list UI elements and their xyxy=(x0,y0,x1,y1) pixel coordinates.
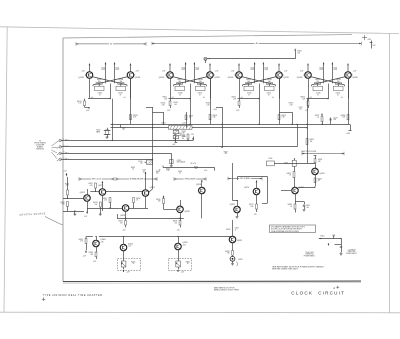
transistor Q4313 xyxy=(120,237,133,259)
stage 3 right collector wire xyxy=(278,78,286,124)
inter-stage component x=186 xyxy=(185,112,193,128)
bus line 3 input wire xyxy=(57,152,196,167)
svg-text:+0.4V: +0.4V xyxy=(101,69,105,71)
coupling capacitor C4161 on bus 4 drop xyxy=(138,160,152,165)
svg-text:2.2K: 2.2K xyxy=(104,200,107,202)
svg-text:R4130: R4130 xyxy=(315,79,320,81)
svg-text:+12V FROM: +12V FROM xyxy=(348,250,357,252)
svg-text:R4147: R4147 xyxy=(189,115,193,117)
svg-text:360: 360 xyxy=(98,81,101,83)
svg-text:360: 360 xyxy=(199,81,202,83)
mid dimension REG CLOCK xyxy=(79,177,114,181)
type title bottom left xyxy=(43,294,103,297)
transistor Q4213 xyxy=(98,181,106,211)
flip-flop stage 1 transistor Q4138 xyxy=(127,71,140,79)
svg-text:R4331: R4331 xyxy=(226,229,230,231)
svg-text:2.2K: 2.2K xyxy=(213,117,216,119)
svg-text:Q4168: Q4168 xyxy=(228,77,233,79)
svg-text:R4151: R4151 xyxy=(182,131,186,133)
test point TP4150 with supply feed wire xyxy=(204,49,302,63)
Q4303 emitter components xyxy=(89,252,97,263)
flip-flop stage 4 transistor Q4188 xyxy=(297,71,311,79)
mid dimension NORMAL BACKER xyxy=(116,177,157,181)
svg-text:560: 560 xyxy=(195,168,198,170)
svg-text:2.2K: 2.2K xyxy=(206,104,209,106)
svg-text:R4229: R4229 xyxy=(166,168,170,170)
svg-text:CLOCK CIRCUIT: CLOCK CIRCUIT xyxy=(291,290,345,295)
stage 3 speed-up capacitor left xyxy=(244,84,254,96)
svg-text:47: 47 xyxy=(268,94,270,96)
transistor Q4293 output xyxy=(312,156,325,187)
transistor Q4333 xyxy=(226,220,242,251)
stage 4 supply arrow left xyxy=(307,64,309,72)
svg-text:Q4293: Q4293 xyxy=(319,173,324,175)
svg-text:-12V: -12V xyxy=(191,134,194,136)
svg-text:R4130: R4130 xyxy=(246,79,251,81)
svg-text:R4233: R4233 xyxy=(118,221,122,223)
stage 4 supply arrow right xyxy=(347,64,349,72)
svg-text:Q4273: Q4273 xyxy=(244,187,249,189)
wire Q4293 emitter to Q4283 collector xyxy=(298,178,322,188)
svg-text:1.8K: 1.8K xyxy=(182,133,185,135)
svg-text:R4133: R4133 xyxy=(133,115,138,117)
wire Q4213 to Q4223 base rail xyxy=(106,191,143,193)
svg-text:3.3K: 3.3K xyxy=(182,136,185,138)
stage 3 speed-up capacitor right xyxy=(265,84,275,96)
svg-text:1K: 1K xyxy=(317,117,319,119)
dimension line 4X (top left span) xyxy=(76,42,146,46)
svg-text:R4333: R4333 xyxy=(225,251,229,253)
svg-text:+125V: +125V xyxy=(367,39,371,41)
svg-text:Q4158: Q4158 xyxy=(214,77,219,79)
svg-text:10K: 10K xyxy=(297,52,300,54)
flip-flop stage 4 transistor Q4198 xyxy=(345,71,358,79)
svg-text:C4130: C4130 xyxy=(247,93,252,95)
svg-text:R4241: R4241 xyxy=(156,199,160,201)
stage 3 center trunk wire x=222 xyxy=(216,107,223,148)
potentiometer box R4315 (dashed) xyxy=(118,259,141,274)
svg-text:VIA P4100: VIA P4100 xyxy=(36,148,44,151)
svg-text:1K: 1K xyxy=(189,117,191,119)
svg-text:R4291: R4291 xyxy=(318,159,322,161)
svg-text:R4167: R4167 xyxy=(297,51,302,53)
svg-text:Q4148: Q4148 xyxy=(159,77,164,79)
title CLOCK CIRCUIT xyxy=(291,290,345,295)
svg-text:Q4233: Q4233 xyxy=(120,215,125,217)
svg-text:R4130: R4130 xyxy=(177,79,182,81)
trunk line B y=127.8 with delay line xyxy=(111,122,308,129)
svg-text:+0.6V: +0.6V xyxy=(346,133,350,135)
svg-text:+0.4V: +0.4V xyxy=(213,109,217,111)
svg-text:R4173: R4173 xyxy=(282,115,287,117)
delay line termination stack xyxy=(172,129,186,146)
flip-flop stage 3 transistor Q4168 xyxy=(228,71,242,79)
stage 2 supply arrow left xyxy=(169,64,171,72)
svg-text:C4283: C4283 xyxy=(306,205,310,207)
stage 2 emitter rail wires xyxy=(169,78,211,99)
svg-text:100: 100 xyxy=(299,109,302,111)
feedback loop wire around Q4273 xyxy=(238,177,268,204)
stage 2 base resistor left xyxy=(177,79,183,84)
svg-text:C4175: C4175 xyxy=(298,107,302,109)
svg-text:360: 360 xyxy=(247,81,250,83)
svg-text:180: 180 xyxy=(140,163,143,165)
svg-text:4.7K: 4.7K xyxy=(90,185,93,187)
bus line 2 input wire xyxy=(57,124,298,149)
stage 3 cross-coupling wires xyxy=(242,77,277,87)
svg-text:R4325: R4325 xyxy=(186,261,190,263)
svg-text:C4219: C4219 xyxy=(142,170,146,172)
stage 4 emitter resistor xyxy=(301,97,310,112)
text cluster above FREQ SCALER dimension xyxy=(131,166,207,174)
bus line 1 termination cluster with -12V xyxy=(181,134,194,141)
svg-text:LINE CORD: LINE CORD xyxy=(348,251,356,253)
svg-text:R4136: R4136 xyxy=(336,79,341,81)
svg-text:Q4198: Q4198 xyxy=(352,77,357,79)
right-side RC cluster on trunk A xyxy=(315,114,338,126)
svg-text:R4211: R4211 xyxy=(89,183,93,185)
pin numbers for bus inputs xyxy=(64,139,65,160)
svg-text:5K: 5K xyxy=(187,263,189,265)
stage 1 emitter resistor R4121 with -12V return xyxy=(77,99,90,112)
labels near scaler trunk x=222 xyxy=(224,151,228,155)
svg-text:R4145: R4145 xyxy=(161,103,166,105)
svg-text:470: 470 xyxy=(175,222,178,224)
stage 4 speed-up capacitor right xyxy=(334,84,344,96)
svg-text:R4239: R4239 xyxy=(194,166,198,168)
svg-text:2.7K: 2.7K xyxy=(80,241,83,243)
svg-text:C4161: C4161 xyxy=(138,161,142,163)
transistor Q4223 xyxy=(142,172,154,208)
potentiometer box R4325 (dashed) xyxy=(169,259,192,274)
svg-text:-12V: -12V xyxy=(254,214,257,216)
svg-text:Q4203: Q4203 xyxy=(80,192,85,194)
svg-text:-12V: -12V xyxy=(181,272,184,274)
indicator/neon B4335 xyxy=(230,256,242,266)
svg-text:+0.4V: +0.4V xyxy=(115,69,119,71)
svg-text:T04.8: T04.8 xyxy=(181,67,185,69)
svg-text:C4229: C4229 xyxy=(178,171,182,173)
stage 4 cross-coupling wires xyxy=(311,77,346,87)
Q4203 emitter ground arrow xyxy=(84,212,88,218)
svg-text:R4281: R4281 xyxy=(287,173,291,175)
svg-text:+3.4V: +3.4V xyxy=(162,71,166,73)
svg-text:-12V: -12V xyxy=(126,272,129,274)
svg-text:360: 360 xyxy=(337,81,340,83)
inter-stage labels near stage 2 right xyxy=(206,103,217,111)
svg-text:1K: 1K xyxy=(289,175,291,177)
svg-text:+3.4V: +3.4V xyxy=(81,71,85,73)
svg-text:1K: 1K xyxy=(132,169,134,171)
svg-text:C4145: C4145 xyxy=(173,102,178,104)
svg-text:-0.3V: -0.3V xyxy=(100,241,103,243)
scaler feed wire y=167.2 xyxy=(159,166,215,172)
stage 1 center trunk wire down to bus area xyxy=(112,99,113,142)
svg-text:2.2K: 2.2K xyxy=(289,104,292,106)
svg-text:82: 82 xyxy=(179,173,181,175)
svg-text:R4161: R4161 xyxy=(232,97,237,99)
resistor drop below Q4233 xyxy=(118,218,126,231)
svg-text:SEMICONDUCTOR TYPES: SEMICONDUCTOR TYPES xyxy=(214,290,240,292)
bus 1 termination capacitor cluster near x=175 xyxy=(174,133,182,141)
svg-text:REG CLOCK: REG CLOCK xyxy=(92,179,101,181)
svg-text:+3.4V: +3.4V xyxy=(284,71,288,73)
svg-text:100: 100 xyxy=(174,104,177,106)
registration mark top-right xyxy=(362,35,367,40)
svg-text:C4335: C4335 xyxy=(238,259,243,261)
svg-text:T04.8: T04.8 xyxy=(250,67,254,69)
svg-text:+3.4V: +3.4V xyxy=(353,71,357,73)
vertical trunk x=232.5 from bus area to Q4263 xyxy=(233,163,238,201)
stage 2 speed-up capacitor right xyxy=(196,84,206,96)
clock output components right of trunk xyxy=(267,158,316,166)
transistor Q4273 xyxy=(244,180,260,204)
svg-text:Q4303: Q4303 xyxy=(100,239,105,241)
svg-text:T04.8: T04.8 xyxy=(101,67,105,69)
svg-text:10: 10 xyxy=(235,229,237,231)
svg-text:C4136: C4136 xyxy=(118,93,123,95)
svg-text:1.5K: 1.5K xyxy=(233,98,236,100)
svg-text:47: 47 xyxy=(337,94,339,96)
svg-text:R4202: R4202 xyxy=(60,202,64,204)
svg-text:R4273: R4273 xyxy=(249,204,253,206)
svg-text:Y4100: Y4100 xyxy=(96,130,101,132)
svg-text:470: 470 xyxy=(120,222,123,224)
svg-text:C4147: C4147 xyxy=(178,133,182,135)
svg-text:R4175: R4175 xyxy=(289,103,294,105)
svg-text:(SEE NOTE): (SEE NOTE) xyxy=(306,254,314,256)
transistor Q4253 xyxy=(196,180,205,218)
transistor Q4203 xyxy=(80,189,91,214)
left column lower components xyxy=(60,202,84,216)
power distribution network bottom right xyxy=(304,235,357,258)
stage 4 center trunk wire x=307 down to pulse shaper xyxy=(306,99,314,163)
svg-text:+0.5V: +0.5V xyxy=(204,170,208,172)
svg-text:C4331: C4331 xyxy=(235,228,239,230)
stage 4 speed-up capacitor left xyxy=(313,84,323,96)
svg-text:Q4138: Q4138 xyxy=(135,77,140,79)
svg-text:R4301: R4301 xyxy=(79,239,83,241)
svg-text:+0.1: +0.1 xyxy=(123,97,126,99)
svg-text:+0.4V: +0.4V xyxy=(250,69,254,71)
stage 1 collector load resistor right xyxy=(114,62,120,83)
transistor Q4323 xyxy=(175,237,188,259)
svg-text:1K: 1K xyxy=(290,206,292,208)
svg-text:1K: 1K xyxy=(136,200,138,202)
stage 2 cross-coupling wires xyxy=(173,77,208,87)
stage 2 base resistor right xyxy=(197,79,203,84)
svg-text:Q4253: Q4253 xyxy=(196,184,201,186)
stage 1 base resistor right xyxy=(118,79,124,84)
svg-text:+0.2V: +0.2V xyxy=(182,244,186,246)
svg-text:R4255: R4255 xyxy=(224,151,228,153)
svg-text:R4136: R4136 xyxy=(198,79,203,81)
bus line 4 input wire xyxy=(57,158,153,161)
stage 1 cross-coupling wires xyxy=(92,77,128,87)
svg-text:NN +2.5V: NN +2.5V xyxy=(191,163,197,165)
svg-text:-12V: -12V xyxy=(93,261,96,263)
svg-text:1.5K: 1.5K xyxy=(302,98,305,100)
lower rail y=218.3 xyxy=(117,214,184,219)
svg-text:Q4313: Q4313 xyxy=(128,243,133,245)
svg-text:360: 360 xyxy=(316,81,319,83)
svg-text:R4219: R4219 xyxy=(131,167,135,169)
stage 2 right collector wire xyxy=(209,78,217,124)
svg-text:+4.2V: +4.2V xyxy=(182,122,186,124)
svg-text:-12V: -12V xyxy=(177,230,180,232)
flip-flop stage 2 transistor Q4158 xyxy=(207,71,220,79)
svg-text:360: 360 xyxy=(268,81,271,83)
stage 3 trunk x=259 xyxy=(258,99,259,125)
svg-text:680: 680 xyxy=(318,161,321,163)
svg-text:47: 47 xyxy=(248,94,250,96)
Q4333 emitter resistor xyxy=(225,251,233,257)
svg-text:10K: 10K xyxy=(310,141,313,143)
emitter rail y=208 and components xyxy=(87,198,141,209)
svg-text:10K: 10K xyxy=(156,173,159,175)
svg-text:.001: .001 xyxy=(178,135,181,137)
stage 4 right collector wire, trunk end xyxy=(341,78,349,124)
stage 1 right collector resistor R4133 xyxy=(130,78,138,124)
svg-text:R4193: R4193 xyxy=(341,115,346,117)
svg-text:+3.4V: +3.4V xyxy=(300,71,304,73)
svg-text:Q4223: Q4223 xyxy=(150,187,155,189)
svg-text:R4121: R4121 xyxy=(77,101,82,103)
svg-text:4.7K: 4.7K xyxy=(167,170,170,172)
svg-text:R4303: R4303 xyxy=(89,252,93,254)
svg-text:R4315: R4315 xyxy=(131,261,135,263)
stage 1 collector load resistor left xyxy=(101,62,106,83)
svg-text:T4290: T4290 xyxy=(268,158,272,160)
boxed circuit note xyxy=(270,225,316,233)
svg-text:DEC: DEC xyxy=(373,45,376,47)
svg-text:R4153: R4153 xyxy=(213,115,218,117)
svg-text:47: 47 xyxy=(99,94,101,96)
svg-text:POWER SHEET 2: POWER SHEET 2 xyxy=(304,255,316,257)
stage 1 supply arrow right xyxy=(130,64,132,72)
right dimension FAST CLOCK PULSE xyxy=(302,150,345,155)
svg-text:Q4178: Q4178 xyxy=(283,77,288,79)
svg-text:+0.2V: +0.2V xyxy=(128,246,132,248)
stage 1 speed-up capacitor left xyxy=(95,84,105,96)
svg-text:68: 68 xyxy=(123,129,125,131)
stage 2 left trunk wire x=152.5 xyxy=(146,107,153,160)
left resistor chain to -12V at x=86 xyxy=(79,237,93,258)
inter-stage divider network R4145 xyxy=(153,102,178,125)
svg-text:Q4243: Q4243 xyxy=(184,211,189,213)
svg-text:+0.4V: +0.4V xyxy=(319,69,323,71)
svg-text:R4136: R4136 xyxy=(119,79,124,81)
resistor drop below Q4243 xyxy=(173,218,181,231)
transistor Q4233 xyxy=(118,205,148,219)
transistor Q4303 xyxy=(93,236,106,252)
svg-text:BEFORE USING THIS UNIT: BEFORE USING THIS UNIT xyxy=(272,269,298,271)
stage 1 speed-up capacitor right xyxy=(116,84,126,96)
svg-text:-12V: -12V xyxy=(83,255,86,257)
svg-text:R4141: R4141 xyxy=(163,97,168,99)
svg-text:T04.8: T04.8 xyxy=(264,67,268,69)
svg-text:R4221: R4221 xyxy=(156,171,160,173)
svg-text:C4136: C4136 xyxy=(336,93,341,95)
resistor stack between Q4203 and Q4213 xyxy=(89,183,100,192)
svg-text:TP: TP xyxy=(208,59,210,61)
svg-text:+3.4V: +3.4V xyxy=(135,71,139,73)
stage 3 emitter rail wires xyxy=(238,78,280,99)
svg-text:360: 360 xyxy=(120,81,123,83)
svg-text:C4162: C4162 xyxy=(177,160,181,162)
stage row group xyxy=(78,62,357,99)
svg-text:+3.4V: +3.4V xyxy=(215,71,219,73)
svg-text:47: 47 xyxy=(317,94,319,96)
svg-text:2.2K: 2.2K xyxy=(161,104,164,106)
svg-text:470: 470 xyxy=(318,180,321,182)
svg-text:1.5K: 1.5K xyxy=(164,98,167,100)
svg-text:C4130: C4130 xyxy=(316,93,321,95)
svg-text:R4136: R4136 xyxy=(267,79,272,81)
svg-text:8.2K: 8.2K xyxy=(62,204,65,206)
svg-text:+3.4V: +3.4V xyxy=(231,71,235,73)
stage 2 speed-up capacitor left xyxy=(175,84,185,96)
svg-text:-12V: -12V xyxy=(84,216,87,218)
crystal source handwritten label xyxy=(19,212,62,225)
svg-text:360: 360 xyxy=(178,81,181,83)
stage 2 collector load resistor left xyxy=(181,62,186,83)
svg-text:+0.1: +0.1 xyxy=(272,97,275,99)
stage 2 collector load resistor right xyxy=(194,62,200,83)
trunk line A y=124.4 xyxy=(111,124,352,135)
stage 3 collector load resistor right xyxy=(263,62,269,83)
parts list note (bottom centre) xyxy=(214,287,240,292)
transistor Q4243 xyxy=(177,200,190,219)
Q4283 emitter network xyxy=(288,202,310,213)
svg-text:C4197: C4197 xyxy=(333,117,337,119)
svg-text:3.9K: 3.9K xyxy=(95,204,98,206)
svg-text:+0.1: +0.1 xyxy=(341,97,344,99)
sheet revision mark A xyxy=(333,286,339,290)
stage 4 emitter rail wires xyxy=(307,78,349,99)
svg-text:680: 680 xyxy=(91,254,94,256)
dimension line 4B (top right span) xyxy=(152,42,361,46)
svg-text:470: 470 xyxy=(225,153,228,155)
registration mark bottom-left xyxy=(42,297,46,301)
stage 3 supply arrow left xyxy=(238,64,240,72)
svg-text:5K: 5K xyxy=(132,263,134,265)
inter-stage divider network stage 3-4 xyxy=(279,103,303,125)
bus 4 drop wire to freq scaler stage xyxy=(149,159,160,192)
svg-text:A: A xyxy=(333,286,335,290)
stage 3 emitter resistor xyxy=(232,97,241,112)
svg-text:C4130: C4130 xyxy=(97,93,102,95)
collector feed for Q4283 from clock line xyxy=(284,158,296,187)
stage 4 base resistor left xyxy=(315,79,321,84)
svg-text:10K: 10K xyxy=(158,201,161,203)
svg-text:6.8K: 6.8K xyxy=(251,206,254,208)
svg-text:+0.4V: +0.4V xyxy=(333,69,337,71)
svg-text:2.2K: 2.2K xyxy=(342,117,345,119)
svg-text:4MHZ: 4MHZ xyxy=(96,131,100,133)
top-right supply tick +125V xyxy=(367,39,376,49)
svg-text:47: 47 xyxy=(179,94,181,96)
svg-text:R4231: R4231 xyxy=(103,198,107,200)
svg-text:2.2K: 2.2K xyxy=(133,117,136,119)
resistor feed at x=163 into Q4243 xyxy=(156,196,177,210)
svg-text:+0.1: +0.1 xyxy=(309,97,312,99)
svg-text:1.5K: 1.5K xyxy=(78,103,81,105)
svg-text:R4243: R4243 xyxy=(173,221,177,223)
svg-text:+0.1: +0.1 xyxy=(171,97,174,99)
svg-text:C4130: C4130 xyxy=(178,93,183,95)
stage 4 collector load resistor right xyxy=(332,62,338,83)
